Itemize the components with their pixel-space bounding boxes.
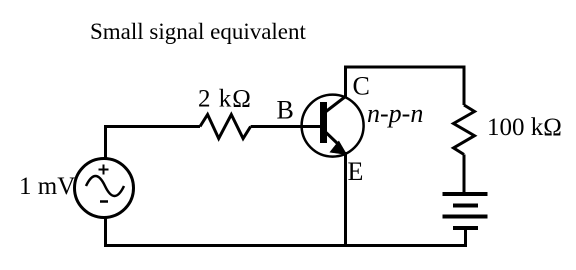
wire: resistor R1 to transistor base <box>251 125 321 128</box>
battery V2 plate 1 (long, top) <box>443 192 488 196</box>
transistor Q1 body circle <box>302 95 364 157</box>
svg-text:B: B <box>277 96 294 125</box>
resistor R1 2 kOhm zigzag <box>200 115 251 139</box>
source V1 minus sign <box>100 200 108 203</box>
transistor Q1 collector diagonal <box>326 97 346 112</box>
svg-text:2 kΩ: 2 kΩ <box>198 86 252 113</box>
wire: source bottom to bottom rail <box>104 217 107 246</box>
transistor Q1 base bar <box>320 102 327 143</box>
wire: right vertical down to resistor R2 <box>463 66 466 106</box>
source V1 circle (1 mV AC) <box>75 159 134 218</box>
wire: top rail to right vertical <box>344 66 466 69</box>
svg-text:Small signal equivalent: Small signal equivalent <box>90 19 307 44</box>
resistor R2 100 kOhm zigzag <box>454 105 475 155</box>
wire: left vertical from top rail to source top <box>104 128 107 158</box>
svg-text:n-p-n: n-p-n <box>367 99 423 128</box>
svg-text:E: E <box>348 157 364 186</box>
wire: resistor R2 down to battery <box>463 155 466 195</box>
source V1 plus sign <box>99 165 109 175</box>
source V1 sine wave <box>86 176 124 196</box>
transistor Q1 emitter arrowhead <box>330 141 347 155</box>
wire: collector up to top rail <box>344 69 347 98</box>
battery V2 plate 2 (short) <box>453 204 478 208</box>
svg-text:100 kΩ: 100 kΩ <box>487 114 562 141</box>
wire: bottom rail <box>104 244 467 247</box>
wire: emitter down to bottom rail <box>344 152 347 246</box>
wire: top-left horizontal rail from left corner to resistor R1 <box>104 125 200 128</box>
transistor Q1 emitter diagonal <box>326 133 338 145</box>
wire: battery bottom to bottom rail <box>464 228 467 247</box>
svg-text:C: C <box>353 72 370 101</box>
battery V2 plate 3 (long) <box>443 215 488 219</box>
svg-text:1 mV: 1 mV <box>19 173 75 200</box>
battery V2 plate 4 (short, bottom) <box>453 226 478 230</box>
